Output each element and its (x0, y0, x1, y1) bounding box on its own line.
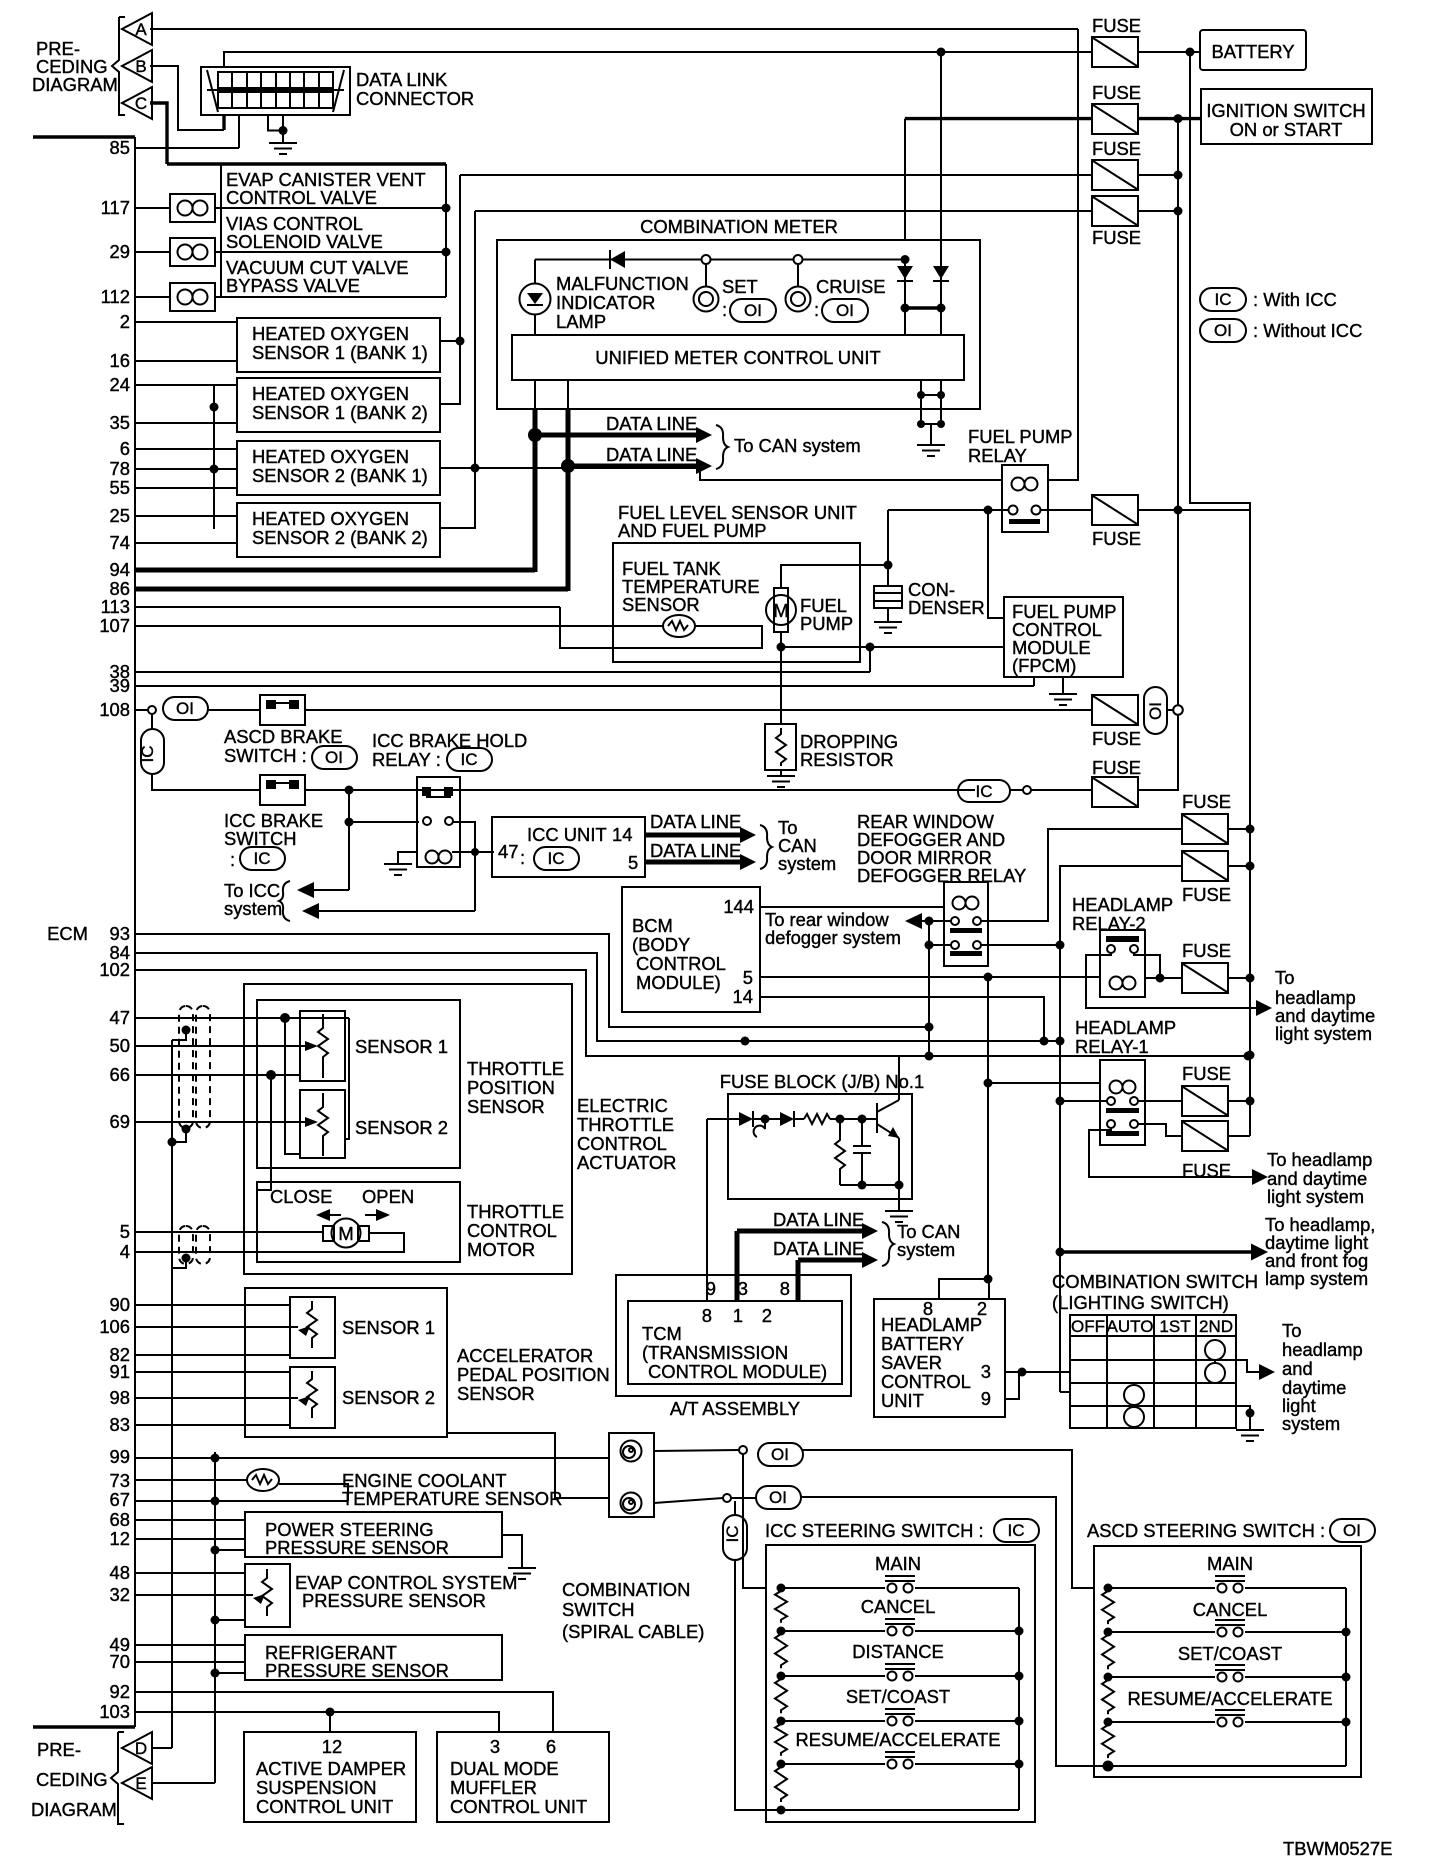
svg-text:DATA LINE: DATA LINE (773, 1238, 864, 1259)
svg-text:FUSE: FUSE (1092, 82, 1141, 103)
svg-text:1ST: 1ST (1159, 1317, 1190, 1336)
svg-text:(SPIRAL CABLE): (SPIRAL CABLE) (562, 1621, 704, 1642)
svg-text::: : (814, 299, 819, 320)
svg-text:6: 6 (546, 1736, 556, 1757)
svg-text:(FPCM): (FPCM) (1012, 655, 1076, 676)
svg-text:ICC UNIT: ICC UNIT (527, 824, 607, 845)
svg-text:55: 55 (110, 477, 130, 498)
svg-text:To headlamp: To headlamp (1267, 1149, 1372, 1170)
svg-text:SENSOR: SENSOR (467, 1096, 545, 1117)
svg-text:ACCELERATOR: ACCELERATOR (457, 1345, 593, 1366)
svg-text:92: 92 (110, 1681, 130, 1702)
svg-text:25: 25 (110, 505, 130, 526)
svg-text:2ND: 2ND (1199, 1317, 1233, 1336)
svg-text:HEADLAMP: HEADLAMP (1075, 1017, 1176, 1038)
svg-text:73: 73 (110, 1470, 130, 1491)
svg-text:INDICATOR: INDICATOR (556, 292, 655, 313)
svg-text:4: 4 (120, 1241, 130, 1262)
svg-text:CONTROL UNIT: CONTROL UNIT (256, 1796, 393, 1817)
svg-text:117: 117 (101, 197, 130, 218)
svg-text:LAMP: LAMP (556, 311, 606, 332)
svg-text:32: 32 (110, 1584, 130, 1605)
svg-text:headlamp: headlamp (1282, 1339, 1363, 1360)
svg-text:MALFUNCTION: MALFUNCTION (556, 273, 689, 294)
svg-text:3: 3 (981, 1361, 991, 1382)
svg-text:2: 2 (977, 1298, 987, 1319)
svg-text:CLOSE: CLOSE (270, 1186, 332, 1207)
svg-text:RESUME/ACCELERATE: RESUME/ACCELERATE (795, 1729, 1000, 1750)
svg-text:IC: IC (976, 782, 993, 801)
svg-text:To CAN system: To CAN system (734, 435, 861, 456)
svg-text:ASCD STEERING SWITCH :: ASCD STEERING SWITCH : (1087, 1520, 1325, 1541)
svg-text:CANCEL: CANCEL (861, 1596, 936, 1617)
svg-text:SET: SET (722, 276, 758, 297)
svg-text:FUSE: FUSE (1092, 728, 1141, 749)
svg-text:OPEN: OPEN (362, 1186, 414, 1207)
svg-text:CRUISE: CRUISE (816, 276, 886, 297)
svg-text:112: 112 (101, 286, 130, 307)
svg-text:light system: light system (1275, 1023, 1372, 1044)
svg-text:FUSE BLOCK (J/B) No.1: FUSE BLOCK (J/B) No.1 (720, 1071, 924, 1092)
svg-text:CANCEL: CANCEL (1193, 1599, 1268, 1620)
svg-text:THROTTLE: THROTTLE (577, 1114, 674, 1135)
svg-text:HEATED OXYGEN: HEATED OXYGEN (252, 446, 409, 467)
svg-text:IC: IC (1215, 290, 1232, 309)
svg-text:PRESSURE SENSOR: PRESSURE SENSOR (302, 1590, 486, 1611)
svg-text:29: 29 (110, 241, 130, 262)
svg-text:78: 78 (110, 458, 130, 479)
svg-text:SWITCH: SWITCH (562, 1599, 635, 1620)
svg-text::: : (722, 299, 727, 320)
svg-text:(TRANSMISSION: (TRANSMISSION (642, 1342, 788, 1363)
svg-text:OFF: OFF (1071, 1317, 1105, 1336)
svg-text:107: 107 (99, 615, 130, 636)
svg-text:FUEL PUMP: FUEL PUMP (968, 426, 1073, 447)
svg-text:24: 24 (110, 374, 130, 395)
svg-text:D: D (135, 1739, 147, 1758)
svg-text:UNIFIED METER CONTROL UNIT: UNIFIED METER CONTROL UNIT (595, 347, 880, 368)
svg-text:system: system (897, 1239, 955, 1260)
svg-text:83: 83 (110, 1414, 130, 1435)
svg-text:93: 93 (110, 923, 130, 944)
svg-text:3: 3 (490, 1736, 500, 1757)
svg-text:E: E (135, 1774, 146, 1793)
svg-text:ELECTRIC: ELECTRIC (577, 1095, 668, 1116)
svg-text:ICC STEERING SWITCH :: ICC STEERING SWITCH : (765, 1520, 984, 1541)
svg-text:90: 90 (110, 1294, 130, 1315)
svg-text:FUSE: FUSE (1092, 227, 1141, 248)
svg-text:39: 39 (110, 675, 130, 696)
svg-text:DATA LINE: DATA LINE (773, 1209, 864, 1230)
svg-text:ICC BRAKE HOLD: ICC BRAKE HOLD (372, 730, 527, 751)
svg-text:BATTERY: BATTERY (1211, 41, 1294, 62)
svg-text:69: 69 (110, 1111, 130, 1132)
svg-text:OI: OI (771, 1445, 789, 1464)
svg-text:THROTTLE: THROTTLE (467, 1058, 564, 1079)
svg-text:IC: IC (548, 849, 565, 868)
svg-text:ASCD BRAKE: ASCD BRAKE (224, 726, 343, 747)
svg-text:DENSER: DENSER (908, 597, 985, 618)
svg-text:SOLENOID VALVE: SOLENOID VALVE (226, 231, 383, 252)
svg-text:C: C (135, 94, 147, 113)
svg-text:CONTROL: CONTROL (467, 1220, 557, 1241)
svg-text:SUSPENSION: SUSPENSION (256, 1777, 377, 1798)
svg-text:SWITCH: SWITCH (224, 828, 297, 849)
svg-text:HEATED OXYGEN: HEATED OXYGEN (252, 508, 409, 529)
svg-text:TEMPERATURE SENSOR: TEMPERATURE SENSOR (342, 1488, 562, 1509)
svg-text:85: 85 (110, 137, 130, 158)
svg-text:FUSE: FUSE (1182, 791, 1231, 812)
svg-text:MAIN: MAIN (875, 1553, 921, 1574)
svg-text:98: 98 (110, 1387, 130, 1408)
svg-text:COMBINATION: COMBINATION (562, 1579, 690, 1600)
svg-text:M: M (773, 600, 788, 621)
svg-text:: With ICC: : With ICC (1253, 289, 1337, 310)
svg-text:CONTROL MODULE): CONTROL MODULE) (648, 1361, 827, 1382)
svg-text:BATTERY: BATTERY (881, 1333, 964, 1354)
svg-text:SENSOR 1 (BANK 2): SENSOR 1 (BANK 2) (252, 402, 428, 423)
svg-text:MUFFLER: MUFFLER (450, 1777, 537, 1798)
svg-text:PEDAL POSITION: PEDAL POSITION (457, 1364, 610, 1385)
svg-text:FUSE: FUSE (1182, 1063, 1231, 1084)
svg-text:OI: OI (176, 699, 194, 718)
svg-text:HEATED OXYGEN: HEATED OXYGEN (252, 383, 409, 404)
svg-text:ECM: ECM (47, 923, 88, 944)
svg-text:IC: IC (723, 1526, 742, 1543)
svg-text:12: 12 (322, 1736, 342, 1757)
svg-text:DATA LINE: DATA LINE (650, 840, 741, 861)
svg-text:PUMP: PUMP (800, 613, 853, 634)
svg-text:108: 108 (99, 699, 130, 720)
svg-text:PRESSURE SENSOR: PRESSURE SENSOR (265, 1537, 449, 1558)
svg-text:(BODY: (BODY (632, 934, 690, 955)
svg-text:OI: OI (1343, 1521, 1361, 1540)
svg-text:OI: OI (744, 301, 762, 320)
svg-text:FUSE: FUSE (1092, 138, 1141, 159)
svg-text:6: 6 (120, 438, 130, 459)
svg-text:47: 47 (498, 841, 518, 862)
svg-text:DATA LINE: DATA LINE (606, 413, 697, 434)
svg-text:9: 9 (981, 1388, 991, 1409)
svg-text:SENSOR: SENSOR (457, 1383, 535, 1404)
svg-text:B: B (135, 57, 146, 76)
svg-text:5: 5 (628, 852, 638, 873)
svg-text:2: 2 (762, 1305, 772, 1326)
svg-text:16: 16 (110, 350, 130, 371)
svg-text:system: system (224, 898, 282, 919)
svg-text::: : (520, 847, 525, 868)
svg-text:OI: OI (1146, 702, 1165, 720)
svg-text:SENSOR 2: SENSOR 2 (355, 1117, 448, 1138)
svg-text:94: 94 (110, 559, 130, 580)
svg-text:CONTROL: CONTROL (577, 1133, 667, 1154)
svg-text:8: 8 (702, 1305, 712, 1326)
svg-text:UNIT: UNIT (881, 1390, 924, 1411)
svg-text:SENSOR 1 (BANK 1): SENSOR 1 (BANK 1) (252, 342, 428, 363)
svg-text:SAVER: SAVER (881, 1352, 942, 1373)
svg-text:PRE-: PRE- (37, 1739, 81, 1760)
svg-text:102: 102 (99, 959, 130, 980)
svg-text:THROTTLE: THROTTLE (467, 1201, 564, 1222)
svg-text:IC: IC (138, 746, 157, 763)
svg-text:SWITCH :: SWITCH : (224, 745, 307, 766)
svg-text:RELAY :: RELAY : (372, 749, 441, 770)
svg-text:IC: IC (461, 750, 478, 769)
svg-text:OI: OI (325, 748, 343, 767)
svg-text:5: 5 (120, 1221, 130, 1242)
svg-text:14: 14 (612, 824, 632, 845)
svg-text:POSITION: POSITION (467, 1077, 555, 1098)
svg-text:1: 1 (733, 1305, 743, 1326)
svg-text:ON or START: ON or START (1230, 119, 1343, 140)
svg-text:SET/COAST: SET/COAST (846, 1686, 950, 1707)
svg-text:OI: OI (836, 301, 854, 320)
svg-text:ACTUATOR: ACTUATOR (577, 1152, 676, 1173)
svg-text:MODULE): MODULE) (636, 972, 721, 993)
svg-text:35: 35 (110, 412, 130, 433)
svg-text:CONTROL: CONTROL (881, 1371, 971, 1392)
svg-text:lamp system: lamp system (1265, 1268, 1368, 1289)
svg-text:TBWM0527E: TBWM0527E (1283, 1838, 1392, 1859)
svg-text:67: 67 (110, 1489, 130, 1510)
svg-text:BYPASS VALVE: BYPASS VALVE (226, 275, 360, 296)
svg-text:FUSE: FUSE (1182, 884, 1231, 905)
svg-text:DEFOGGER RELAY: DEFOGGER RELAY (857, 865, 1026, 886)
svg-text:To: To (1282, 1320, 1301, 1341)
svg-text:MAIN: MAIN (1207, 1553, 1253, 1574)
svg-text:(LIGHTING SWITCH): (LIGHTING SWITCH) (1052, 1292, 1229, 1313)
svg-text:CONTROL VALVE: CONTROL VALVE (226, 187, 377, 208)
svg-text:47: 47 (110, 1007, 130, 1028)
svg-text:FUSE: FUSE (1182, 940, 1231, 961)
svg-text:system: system (778, 853, 836, 874)
svg-text:99: 99 (110, 1446, 130, 1467)
svg-text:FUSE: FUSE (1092, 757, 1141, 778)
svg-text:66: 66 (110, 1064, 130, 1085)
svg-text:HEATED OXYGEN: HEATED OXYGEN (252, 323, 409, 344)
svg-text:RELAY-1: RELAY-1 (1075, 1036, 1149, 1057)
svg-text:50: 50 (110, 1035, 130, 1056)
svg-text:light system: light system (1267, 1186, 1364, 1207)
svg-text:106: 106 (99, 1316, 130, 1337)
svg-text:To: To (1275, 967, 1294, 988)
svg-text:PRESSURE SENSOR: PRESSURE SENSOR (265, 1660, 449, 1681)
svg-text:12: 12 (110, 1528, 130, 1549)
svg-text:A/T ASSEMBLY: A/T ASSEMBLY (670, 1398, 800, 1419)
svg-text:8: 8 (923, 1298, 933, 1319)
svg-text:COMBINATION SWITCH: COMBINATION SWITCH (1052, 1271, 1258, 1292)
svg-text:OI: OI (769, 1488, 787, 1507)
svg-text:74: 74 (110, 532, 130, 553)
svg-text:IGNITION SWITCH: IGNITION SWITCH (1206, 100, 1365, 121)
svg-text:RESUME/ACCELERATE: RESUME/ACCELERATE (1127, 1688, 1332, 1709)
svg-text:SENSOR 1: SENSOR 1 (355, 1036, 448, 1057)
svg-text:SENSOR 2: SENSOR 2 (342, 1387, 435, 1408)
svg-text:48: 48 (110, 1562, 130, 1583)
svg-text:144: 144 (723, 896, 754, 917)
svg-text:CONTROL UNIT: CONTROL UNIT (450, 1796, 587, 1817)
svg-text:2: 2 (120, 311, 130, 332)
svg-text:5: 5 (743, 967, 753, 988)
svg-text:91: 91 (110, 1361, 130, 1382)
svg-text:103: 103 (99, 1701, 130, 1722)
svg-text:M: M (338, 1223, 353, 1244)
svg-text:DATA LINE: DATA LINE (650, 811, 741, 832)
svg-text:DATA LINE: DATA LINE (606, 444, 697, 465)
svg-text:DUAL MODE: DUAL MODE (450, 1758, 559, 1779)
svg-text:8: 8 (780, 1278, 790, 1299)
svg-text:CEDING: CEDING (36, 1769, 108, 1790)
svg-text:113: 113 (101, 596, 130, 617)
svg-text:: Without ICC: : Without ICC (1253, 320, 1362, 341)
svg-text:SENSOR 2 (BANK 2): SENSOR 2 (BANK 2) (252, 527, 428, 548)
svg-text:IC: IC (1008, 1521, 1025, 1540)
svg-text:CONNECTOR: CONNECTOR (356, 88, 474, 109)
svg-text:14: 14 (733, 986, 753, 1007)
svg-text:defogger system: defogger system (765, 927, 901, 948)
svg-text:DIAGRAM: DIAGRAM (32, 74, 118, 95)
svg-text:ACTIVE DAMPER: ACTIVE DAMPER (256, 1758, 406, 1779)
svg-text:RELAY: RELAY (968, 445, 1027, 466)
svg-text:RESISTOR: RESISTOR (800, 749, 894, 770)
svg-text:TCM: TCM (642, 1323, 682, 1344)
svg-text:FUSE: FUSE (1092, 528, 1141, 549)
svg-text:DATA LINK: DATA LINK (356, 69, 448, 90)
svg-text:SENSOR: SENSOR (622, 594, 700, 615)
svg-text:SET/COAST: SET/COAST (1178, 1643, 1282, 1664)
svg-text:DISTANCE: DISTANCE (852, 1641, 944, 1662)
svg-text:68: 68 (110, 1509, 130, 1530)
svg-text:CONTROL: CONTROL (636, 953, 726, 974)
svg-text:COMBINATION METER: COMBINATION METER (640, 216, 838, 237)
svg-text:SENSOR 2 (BANK 1): SENSOR 2 (BANK 1) (252, 465, 428, 486)
svg-text:and: and (1282, 1358, 1313, 1379)
svg-text:A: A (135, 20, 147, 39)
svg-text:OI: OI (1214, 321, 1232, 340)
svg-text:FUSE: FUSE (1092, 15, 1141, 36)
svg-text:BCM: BCM (632, 915, 673, 936)
svg-text:MOTOR: MOTOR (467, 1239, 535, 1260)
svg-text:DIAGRAM: DIAGRAM (31, 1799, 117, 1820)
svg-text:AND FUEL PUMP: AND FUEL PUMP (618, 520, 767, 541)
svg-text:IC: IC (254, 849, 271, 868)
svg-text:SENSOR 1: SENSOR 1 (342, 1317, 435, 1338)
svg-text:70: 70 (110, 1651, 130, 1672)
svg-text:HEADLAMP: HEADLAMP (1072, 894, 1173, 915)
svg-text:system: system (1282, 1413, 1340, 1434)
svg-text:AUTO: AUTO (1107, 1317, 1154, 1336)
svg-text::: : (230, 849, 235, 870)
